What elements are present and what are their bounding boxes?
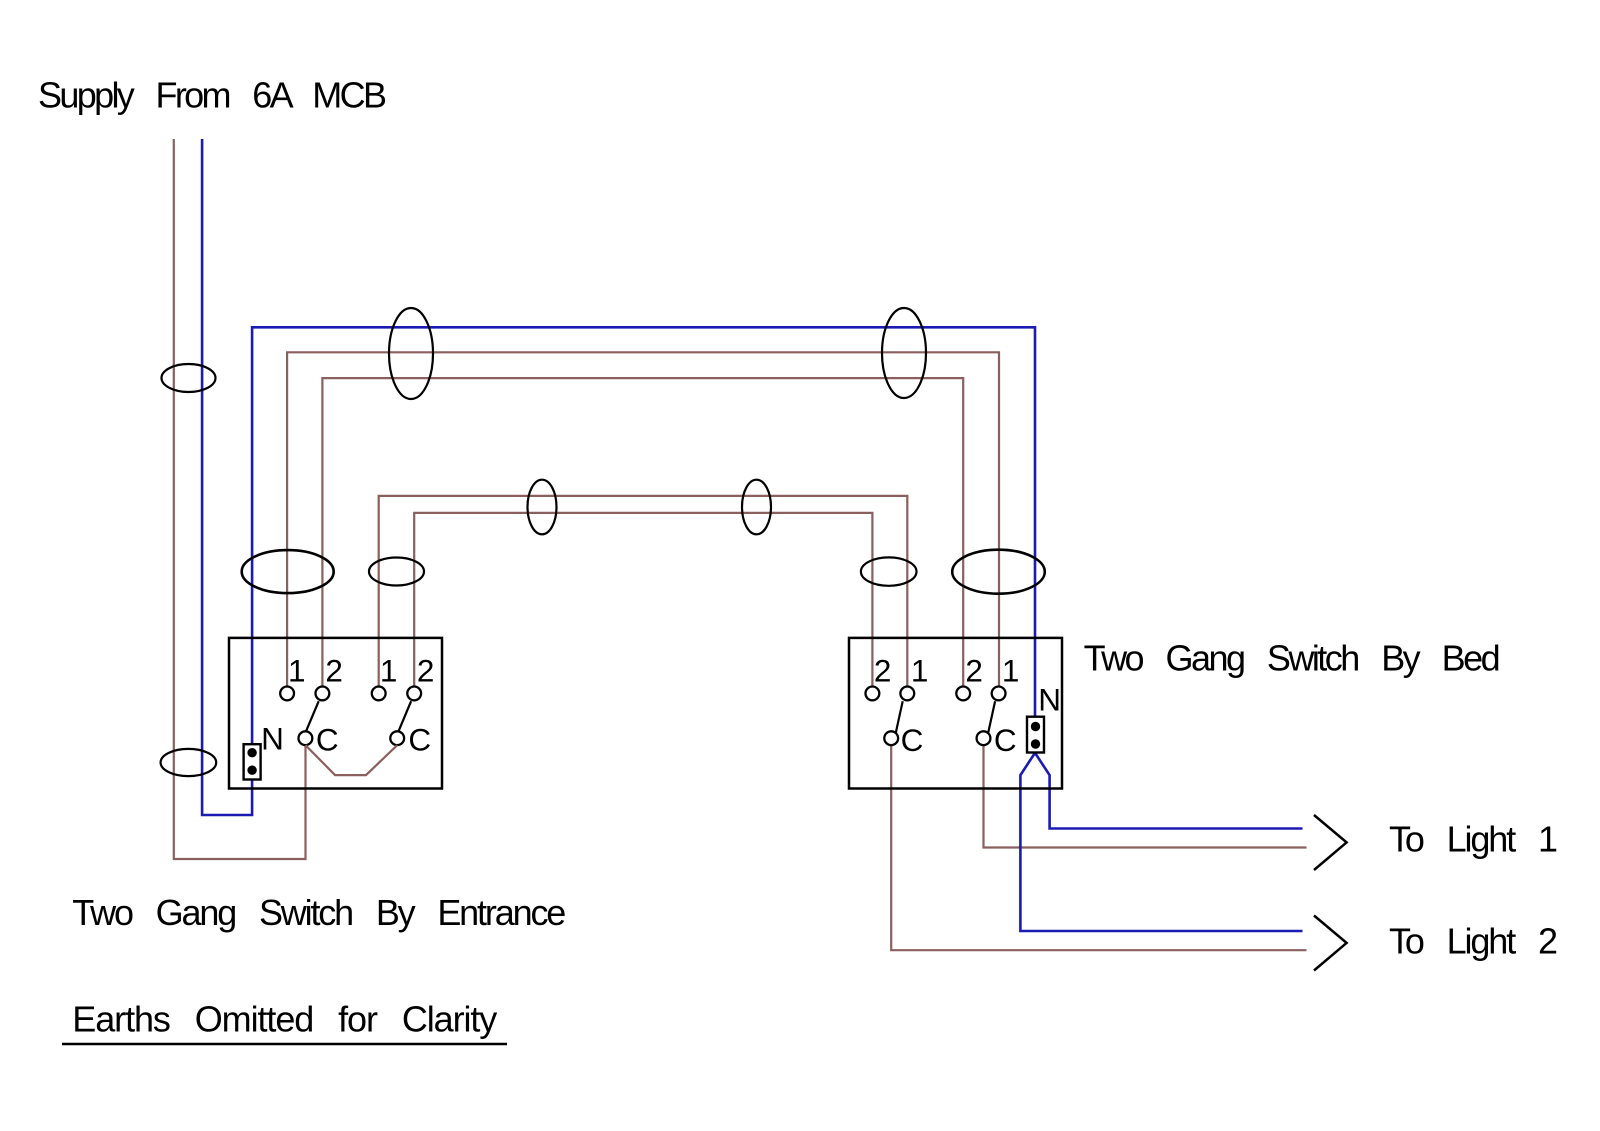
cable sheath ellipse above bed switch right gang [952, 550, 1045, 594]
svg-text:2: 2 [874, 653, 892, 689]
svg-text:C: C [408, 721, 431, 757]
svg-text:C: C [316, 721, 339, 757]
switch lever bed gang1 [896, 701, 903, 732]
terminal block N entrance switch [244, 744, 261, 779]
svg-text:To Light 1: To Light 1 [1389, 819, 1558, 860]
switch lever bed gang2 [988, 701, 995, 732]
svg-text:Two Gang Switch By Entrance: Two Gang Switch By Entrance [72, 892, 566, 933]
wire: brown strapper L2-2 entrance gang1 terminal 2 up, across, down to bed gang2 terminal 2 [322, 378, 963, 686]
wire: brown link between entrance switch commons C1 and C2 [306, 745, 398, 775]
terminal C entrance gang1 [299, 731, 313, 745]
wire: brown switched live from bed switch gang2 C down and right to Light 1 [984, 745, 1307, 847]
box: two gang switch by entrance [229, 638, 442, 789]
svg-text:2: 2 [417, 653, 435, 689]
cable sheath ellipse above bed switch left gang [861, 557, 917, 585]
svg-text:1: 1 [380, 653, 398, 689]
svg-text:1: 1 [288, 653, 306, 689]
switch lever entrance gang2 [399, 701, 412, 731]
cable sheath ellipse on supply cable lower [161, 749, 217, 776]
cable sheath ellipse on top 3-core run left [389, 308, 433, 399]
cable sheath ellipse on supply cable upper [162, 364, 216, 392]
wire: brown strapper entrance gang2 terminal 1 up, across middle, down to bed gang1 terminal 1 [379, 496, 908, 687]
terminal 1 bed gang1 [900, 687, 914, 701]
cable sheath ellipse on top 3-core run right [882, 308, 926, 398]
svg-text:Supply From 6A MCB: Supply From 6A MCB [38, 75, 387, 116]
terminal 2 bed gang2 [956, 687, 970, 701]
svg-text:To Light 2: To Light 2 [1389, 921, 1558, 962]
svg-text:N: N [261, 720, 284, 756]
terminal 1 bed gang2 [992, 687, 1006, 701]
svg-text:C: C [994, 722, 1017, 758]
terminal C bed gang1 [884, 731, 898, 745]
svg-text:2: 2 [325, 653, 343, 689]
svg-text:C: C [901, 722, 924, 758]
terminal C entrance gang2 [390, 731, 404, 745]
arrow head to Light 2 [1314, 916, 1347, 971]
cable sheath ellipse on middle 2-core run left [528, 480, 557, 535]
cable sheath ellipse on middle 2-core run right [742, 480, 771, 535]
svg-text:1: 1 [911, 653, 929, 689]
cable sheath ellipse above entrance switch left gang [242, 550, 334, 593]
cable sheath ellipse above entrance switch right gang [369, 558, 424, 586]
wire: brown supply live from MCB down left side, right along bottom, up to C of entrance switch gang 1 [174, 139, 306, 859]
terminal 2 bed gang1 [866, 687, 880, 701]
terminal 1 entrance gang2 [372, 687, 386, 701]
box: two gang switch by bed [849, 638, 1062, 789]
svg-text:N: N [1038, 682, 1061, 718]
terminal 2 entrance gang1 [316, 687, 330, 701]
svg-text:1: 1 [1002, 653, 1020, 689]
wire: brown switched live from bed switch gang1 C down and right to Light 2 [891, 745, 1306, 950]
wire: blue neutral from bed switch N block to Light 2 [1020, 753, 1302, 931]
underline for Earths Omitted for Clarity [62, 1043, 507, 1046]
svg-text:Two Gang Switch By Bed: Two Gang Switch By Bed [1084, 638, 1501, 679]
terminal C bed gang2 [977, 731, 991, 745]
terminal 1 entrance gang1 [280, 687, 294, 701]
wire: blue neutral from bed switch N block to Light 1 [1035, 753, 1303, 829]
arrow head to Light 1 [1314, 815, 1347, 870]
wire: brown strapper L1-1 entrance gang1 terminal 1 up, across top, down to bed gang2 terminal 1 [287, 352, 999, 686]
switch lever entrance gang1 [306, 701, 319, 731]
terminal block N bed switch [1027, 717, 1044, 753]
wire: brown strapper entrance gang2 terminal 2 up, across middle, down to bed gang1 terminal 2 [414, 513, 872, 687]
terminal 2 entrance gang2 [407, 687, 421, 701]
svg-text:Earths Omitted for Clarity: Earths Omitted for Clarity [72, 999, 497, 1040]
wire: blue supply neutral from MCB down, right, up through entrance switch N block, up and across top to bed switch N block [202, 139, 1035, 815]
svg-text:2: 2 [965, 653, 983, 689]
